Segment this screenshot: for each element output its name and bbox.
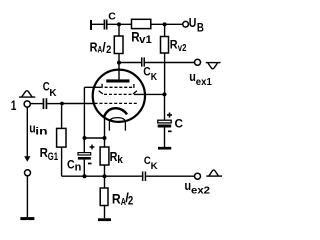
wire: cathode link — [85, 137, 105, 139]
ground (RA/2 bottom) — [98, 218, 111, 221]
resistor RA/2 (cathode half) — [100, 176, 133, 218]
tube anode plate — [106, 79, 129, 82]
wire: cathode bus — [62, 175, 142, 177]
capacitor CK (input) — [43, 80, 57, 110]
ground (screen cap) — [158, 128, 171, 149]
symbol: pulse at input — [19, 91, 35, 97]
wire: cathode lead — [104, 116, 106, 138]
svg-text:k: k — [117, 154, 123, 166]
node: anode supply junction — [117, 22, 121, 26]
wire: anode lead — [118, 63, 120, 80]
node: UB junction — [163, 22, 167, 26]
tube heater — [109, 118, 125, 131]
svg-text:B: B — [197, 22, 204, 34]
svg-text:K: K — [49, 87, 57, 99]
tube V1 envelope — [93, 70, 145, 122]
ground (input) — [20, 176, 34, 218]
label uex1 — [189, 69, 212, 88]
svg-text:R: R — [90, 40, 98, 54]
svg-text:v1: v1 — [139, 34, 152, 46]
svg-text:K: K — [151, 71, 158, 83]
capacitor C (screen bypass electrolytic) — [158, 94, 184, 131]
wire: anode junction to CK — [119, 62, 141, 64]
capacitor CK (anode coupling) — [141, 57, 157, 83]
svg-text:in: in — [35, 126, 47, 138]
wire: Rv1 to UB — [151, 23, 183, 25]
node: anode junction — [117, 61, 121, 65]
resistor RG1 — [40, 105, 66, 176]
svg-text:U: U — [189, 15, 197, 30]
label uex2 — [185, 178, 211, 197]
svg-text:1: 1 — [11, 97, 17, 113]
tube grid g1 (control) — [95, 102, 138, 104]
svg-text:2: 2 — [128, 195, 133, 207]
node: bus left — [83, 174, 87, 178]
node: bus centre — [103, 174, 107, 178]
wire: CK to grid node — [47, 103, 62, 105]
node: screen grid junction — [163, 92, 167, 96]
tube grid g2 (screen) — [99, 91, 137, 95]
svg-text:G1: G1 — [48, 151, 58, 163]
terminal vex1 — [195, 59, 201, 65]
terminal 1 (input) — [11, 97, 31, 113]
capacitor CK (output 2) — [142, 155, 158, 181]
node: cathode left — [83, 136, 87, 140]
voltage arrow uin — [24, 107, 47, 162]
svg-text:R: R — [112, 190, 121, 206]
wire: screen grid to junction — [134, 93, 165, 95]
wire: grid node to tube g1 — [62, 103, 94, 105]
wire: CK to vex2 terminal — [146, 175, 194, 177]
wire: g3 exit — [84, 86, 101, 88]
svg-text:2: 2 — [106, 44, 111, 56]
capacitor Cn (cathode bypass electrolytic) — [67, 138, 94, 176]
resistor Rv1 — [131, 19, 152, 46]
wire: terminal 1 to CK — [31, 103, 43, 105]
terminal UB — [183, 15, 204, 35]
svg-text:C: C — [108, 10, 116, 22]
svg-text:n: n — [75, 162, 82, 174]
resistor RK — [100, 138, 123, 176]
svg-text:C: C — [175, 117, 184, 131]
tube grid g3 (suppressor) — [102, 84, 134, 88]
node: cathode — [103, 136, 107, 140]
svg-text:ex1: ex1 — [196, 76, 212, 88]
resistor RA/2 (anode half) — [90, 24, 123, 62]
wire: cap C to Rv1 — [108, 23, 132, 25]
terminal vex2 — [195, 173, 201, 179]
svg-text:K: K — [151, 161, 158, 172]
svg-text:ex2: ex2 — [191, 185, 210, 197]
capacitor C (top) — [104, 10, 117, 29]
wire: suppressor grid down lead — [83, 87, 85, 138]
svg-text:R: R — [170, 38, 178, 52]
terminal (input return) — [25, 170, 31, 176]
wire: CK to vex1 terminal — [145, 62, 195, 64]
svg-text:C: C — [67, 158, 75, 172]
resistor Rv2 — [161, 24, 187, 94]
wire: top rail left stub — [90, 20, 104, 30]
tube cathode — [104, 108, 127, 117]
symbol: pulse (negative) at vex1 — [206, 63, 221, 69]
svg-text:v2: v2 — [178, 42, 187, 54]
symbol: pulse (positive) at vex2 — [206, 170, 222, 176]
node: grid — [60, 102, 64, 106]
